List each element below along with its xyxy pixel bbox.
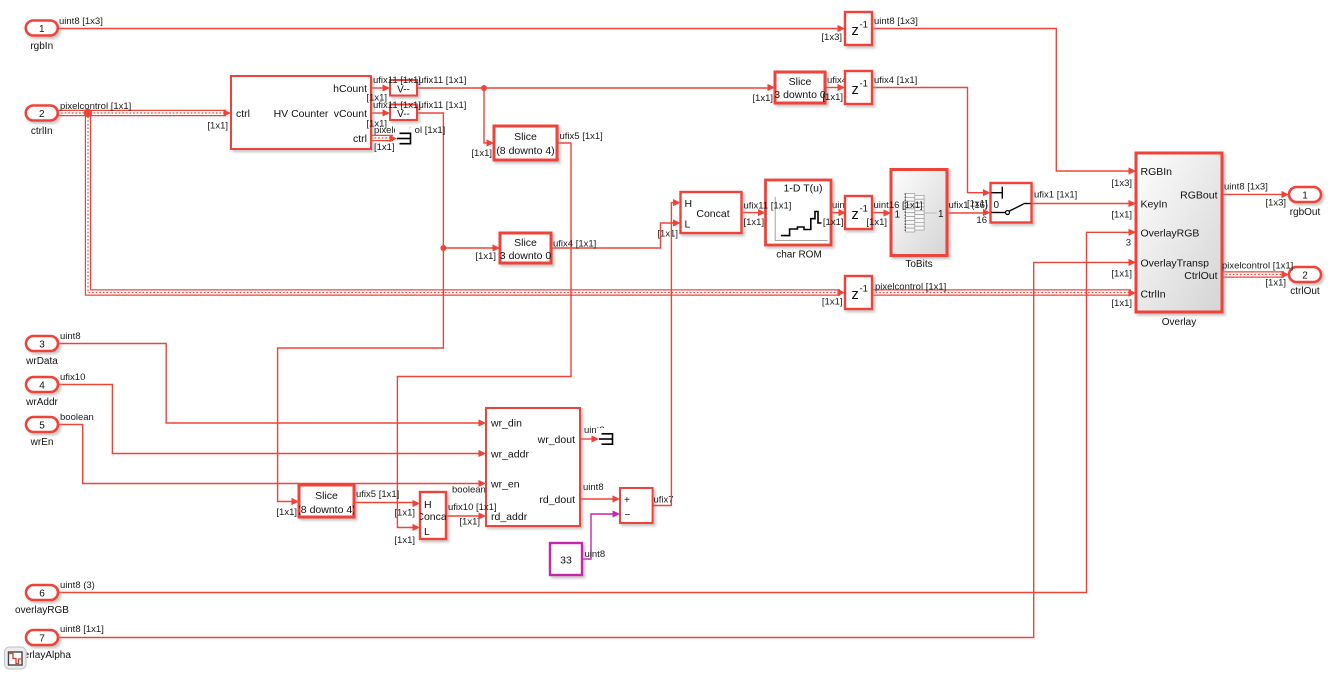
delay block delay2 (z^-1) bbox=[845, 71, 872, 104]
wire Concat1 to char ROM bbox=[742, 212, 761, 214]
block Index Vector switch bbox=[991, 183, 1032, 223]
arrowhead into Slice84 low bbox=[292, 498, 300, 505]
svg-text:CtrlIn: CtrlIn bbox=[1141, 289, 1166, 301]
svg-text:ufix7: ufix7 bbox=[654, 495, 674, 506]
svg-text:ctrlIn: ctrlIn bbox=[31, 126, 53, 137]
svg-text:[1x1]: [1x1] bbox=[744, 217, 765, 228]
arrowhead into V--h bbox=[383, 84, 391, 91]
svg-text:Concat: Concat bbox=[416, 511, 449, 523]
wire wrAddr to RAM wr_addr bbox=[58, 385, 482, 454]
svg-text:Slice: Slice bbox=[514, 237, 537, 249]
svg-text:3: 3 bbox=[39, 339, 45, 350]
wire hCount branch to Slice(8 downto 4) bbox=[484, 88, 489, 143]
svg-text:Concat: Concat bbox=[696, 208, 729, 220]
svg-text:ufix5 [1x1]: ufix5 [1x1] bbox=[560, 131, 603, 142]
arrowhead into rgbOut bbox=[1282, 191, 1290, 198]
wire Overlay CtrlOut to ctrlOut (pixelcontrol bus) bbox=[1222, 271, 1284, 277]
svg-text:wrData: wrData bbox=[25, 356, 58, 367]
wire overlayAlpha to Overlay bbox=[58, 262, 1132, 637]
block Slice (8 downto 4) lower bbox=[299, 485, 354, 517]
delay block delay1 (z^-1) bbox=[845, 12, 872, 45]
wire delay4 to Overlay CtrlIn (pixelcontrol bus) bbox=[872, 289, 1131, 295]
arrowhead into char ROM bbox=[758, 209, 766, 216]
svg-text:Slice: Slice bbox=[789, 76, 812, 88]
svg-text:z: z bbox=[852, 287, 859, 303]
wire ToBits to switch bbox=[947, 212, 986, 214]
arrowhead into delay4 bbox=[838, 289, 846, 296]
svg-text:[1x1]: [1x1] bbox=[394, 508, 415, 519]
arrowhead into RAM rd_addr bbox=[479, 512, 487, 519]
svg-text:[1x1]: [1x1] bbox=[752, 93, 773, 104]
wire vCount to V-- bbox=[371, 112, 385, 114]
svg-text:L: L bbox=[685, 219, 691, 231]
svg-text:ufix11 [1x1]: ufix11 [1x1] bbox=[419, 75, 467, 86]
svg-text:Slice: Slice bbox=[315, 490, 338, 502]
junction ctrlIn branch bbox=[84, 109, 92, 117]
arrowhead into Sum plus bbox=[613, 495, 621, 502]
svg-text:(8 downto 4): (8 downto 4) bbox=[496, 145, 554, 157]
wire vCount branch to Slice(3 downto 0) bbox=[443, 247, 495, 249]
wire Constant33 to Sum minus bbox=[582, 514, 615, 559]
svg-text:[1x1]: [1x1] bbox=[1111, 298, 1132, 309]
svg-text:[1x1]: [1x1] bbox=[866, 217, 887, 228]
svg-text:[1x1]: [1x1] bbox=[394, 535, 415, 546]
svg-text:uint16 [1x1]: uint16 [1x1] bbox=[874, 200, 923, 211]
svg-text:[1x1]: [1x1] bbox=[822, 92, 843, 103]
svg-text:uint8 [1x3]: uint8 [1x3] bbox=[1224, 182, 1268, 193]
svg-text:vCount: vCount bbox=[334, 108, 367, 120]
svg-text:[1x1]: [1x1] bbox=[657, 229, 678, 240]
svg-text:4: 4 bbox=[39, 380, 45, 391]
svg-text:5: 5 bbox=[39, 420, 45, 431]
wire RAM wr_dout to terminator bbox=[580, 438, 594, 440]
svg-text:H: H bbox=[424, 499, 432, 511]
arrowhead into Overlay OverlayTransp bbox=[1129, 259, 1137, 266]
svg-text:ctrlOut: ctrlOut bbox=[1290, 286, 1320, 297]
block Slice (8 downto 4) upper bbox=[494, 126, 557, 160]
svg-text:7: 7 bbox=[39, 633, 45, 644]
svg-text:[1x3]: [1x3] bbox=[821, 32, 842, 43]
svg-text:uint8 [1x3]: uint8 [1x3] bbox=[59, 16, 103, 27]
svg-text:Overlay: Overlay bbox=[1162, 317, 1196, 328]
wire wrData to RAM wr_din bbox=[58, 344, 482, 424]
svg-text:[1x3]: [1x3] bbox=[1111, 178, 1132, 189]
svg-text:rd_dout: rd_dout bbox=[539, 494, 575, 506]
svg-text:+: + bbox=[624, 495, 630, 506]
block RAM (dual port) bbox=[486, 408, 580, 526]
wire char ROM to delay3 bbox=[830, 212, 841, 214]
svg-text:HV Counter: HV Counter bbox=[274, 108, 329, 120]
wire Slice(3:0) top to delay2 bbox=[825, 87, 840, 89]
svg-text:uint8 (3): uint8 (3) bbox=[60, 580, 95, 591]
svg-text:ufix11 [1x1]: ufix11 [1x1] bbox=[744, 201, 792, 212]
arrowhead into delay3 bbox=[839, 209, 847, 216]
arrowhead into Concat2 H bbox=[413, 500, 421, 507]
svg-text:[1x1]: [1x1] bbox=[967, 199, 988, 210]
wire ctrlIn branch down+right to delay4 (pixelcontrol bus) bbox=[88, 113, 840, 293]
svg-text:V--: V-- bbox=[397, 85, 410, 96]
arrowhead into Overlay RGBIn bbox=[1129, 167, 1137, 174]
block Concat (upper) bbox=[681, 192, 742, 233]
arrowhead into Slice30 top bbox=[768, 84, 776, 91]
arrowhead into HV ctrl bbox=[224, 109, 232, 116]
svg-text:[1x1]: [1x1] bbox=[1265, 278, 1286, 289]
delay block delay4 (z^-1) bbox=[845, 276, 872, 309]
port inport 3 wrData bbox=[26, 336, 58, 351]
port inport 7 overlayAlpha bbox=[26, 630, 58, 645]
svg-text:[1x1]: [1x1] bbox=[1111, 210, 1132, 221]
port inport 5 wrEn bbox=[26, 417, 58, 432]
svg-text:-1: -1 bbox=[860, 284, 868, 295]
terminator terminator1 (ctrl) bbox=[395, 128, 415, 149]
svg-text:[1x1]: [1x1] bbox=[366, 119, 387, 130]
port inport 6 overlayRGB bbox=[26, 585, 58, 600]
arrowhead into terminator2 bbox=[592, 435, 600, 442]
port inport 1 rgbIn bbox=[26, 21, 58, 36]
wire ctrlIn to HV Counter (pixelcontrol bus) bbox=[58, 110, 227, 116]
logging badge (overlayAlpha) bbox=[5, 647, 27, 669]
svg-text:(8 downto 4): (8 downto 4) bbox=[297, 504, 355, 516]
arrowhead into Concat2 L bbox=[413, 524, 421, 531]
block V-- (hCount) bbox=[390, 80, 417, 96]
svg-text:boolean: boolean bbox=[452, 485, 486, 496]
svg-text:ufix11 [1x1]: ufix11 [1x1] bbox=[419, 100, 467, 111]
wire delay1 to Overlay RGBIn bbox=[872, 29, 1131, 172]
svg-text:(3 downto 0): (3 downto 0) bbox=[771, 89, 829, 101]
delay block delay3 (z^-1) bbox=[845, 196, 872, 229]
svg-text:1: 1 bbox=[1302, 190, 1308, 201]
svg-text:uint8: uint8 bbox=[585, 549, 606, 560]
arrowhead into Overlay CtrlIn bbox=[1129, 289, 1137, 296]
svg-text:hCount: hCount bbox=[333, 83, 367, 95]
svg-text:[1x1]: [1x1] bbox=[823, 217, 844, 228]
svg-text:ToBits: ToBits bbox=[905, 259, 932, 270]
svg-text:pixelcontrol [1x1]: pixelcontrol [1x1] bbox=[875, 282, 946, 293]
arrowhead into ctrlOut bbox=[1282, 271, 1290, 278]
svg-text:H: H bbox=[685, 198, 693, 210]
ToBits ladder icon bbox=[906, 194, 915, 198]
char ROM staircase icon bbox=[781, 212, 822, 236]
block Overlay (subsystem) bbox=[1136, 153, 1222, 312]
svg-text:-1: -1 bbox=[860, 20, 868, 31]
wire switch to Overlay KeyIn bbox=[1032, 203, 1132, 205]
block Concat (lower) bbox=[420, 492, 446, 539]
svg-text:ufix10 [1x1]: ufix10 [1x1] bbox=[448, 502, 497, 513]
svg-text:KeyIn: KeyIn bbox=[1141, 199, 1168, 211]
svg-text:wr_din: wr_din bbox=[490, 418, 522, 430]
svg-text:2: 2 bbox=[39, 109, 45, 120]
arrowhead into Concat1 L bbox=[673, 219, 681, 226]
svg-text:CtrlOut: CtrlOut bbox=[1184, 270, 1217, 282]
svg-text:1: 1 bbox=[895, 210, 901, 221]
block HV Counter bbox=[231, 76, 371, 149]
svg-text:[1x1]: [1x1] bbox=[822, 297, 843, 308]
svg-text:[1x1]: [1x1] bbox=[459, 517, 480, 528]
svg-text:RGBIn: RGBIn bbox=[1141, 166, 1173, 178]
svg-text:−: − bbox=[625, 510, 631, 521]
svg-text:uint8 [1x1]: uint8 [1x1] bbox=[60, 624, 104, 635]
arrowhead into Sum minus bbox=[613, 510, 621, 517]
wire vCount out routing bbox=[278, 113, 444, 502]
wire overlayRGB to Overlay bbox=[58, 232, 1132, 592]
wire Overlay RGBout to rgbOut bbox=[1222, 193, 1284, 195]
wire RAM rd_dout to Sum bbox=[580, 498, 615, 500]
arrowhead into RAM wr_addr bbox=[479, 450, 487, 457]
svg-text:6: 6 bbox=[39, 588, 45, 599]
svg-text:[1x1]: [1x1] bbox=[207, 121, 228, 132]
block char ROM (1-D lookup table) bbox=[766, 180, 832, 245]
wire V-- hCount out bbox=[417, 87, 770, 89]
svg-text:ctrl: ctrl bbox=[353, 133, 367, 145]
arrowhead into V--v bbox=[383, 109, 391, 116]
svg-text:ctrl: ctrl bbox=[236, 108, 250, 120]
svg-text:0: 0 bbox=[994, 200, 1000, 211]
arrowhead into delay2 bbox=[838, 84, 846, 91]
svg-text:ufix4 [1x1]: ufix4 [1x1] bbox=[553, 239, 596, 250]
svg-text:wrEn: wrEn bbox=[30, 437, 54, 448]
block Slice (3 downto 0) lower bbox=[500, 233, 551, 263]
arrowhead into switch ctrl bbox=[983, 189, 991, 196]
svg-text:1-D T(u): 1-D T(u) bbox=[784, 183, 823, 195]
port outport 2 ctrlOut bbox=[1289, 267, 1321, 282]
svg-text:wr_addr: wr_addr bbox=[490, 449, 529, 461]
svg-text:1: 1 bbox=[938, 209, 944, 220]
svg-text:OverlayRGB: OverlayRGB bbox=[1141, 228, 1200, 240]
wire hCount to V-- bbox=[371, 87, 385, 89]
svg-text:pixelcontrol [1x1]: pixelcontrol [1x1] bbox=[1222, 261, 1293, 272]
svg-text:ufix4 [1x1]: ufix4 [1x1] bbox=[874, 75, 917, 86]
svg-text:ufix5 [1x1]: ufix5 [1x1] bbox=[356, 489, 399, 500]
svg-text:wrAddr: wrAddr bbox=[25, 397, 58, 408]
svg-text:1: 1 bbox=[39, 24, 45, 35]
wire Sum out up to Concat1 H bbox=[653, 203, 676, 506]
svg-text:char ROM: char ROM bbox=[776, 250, 822, 261]
svg-text:[1x1]: [1x1] bbox=[1111, 269, 1132, 280]
svg-text:uint8 [1x3]: uint8 [1x3] bbox=[874, 16, 918, 27]
port inport 2 ctrlIn bbox=[26, 106, 58, 121]
svg-text:z: z bbox=[852, 82, 859, 98]
svg-text:overlayRGB: overlayRGB bbox=[15, 605, 69, 616]
svg-text:[1x1]: [1x1] bbox=[475, 251, 496, 262]
wire delay2 to switch ctrl bbox=[872, 88, 986, 193]
svg-text:[1x1]: [1x1] bbox=[374, 142, 395, 153]
svg-text:ufix11 [1x1]: ufix11 [1x1] bbox=[373, 100, 421, 111]
wire HV ctrl to terminator (pixelcontrol bus) bbox=[371, 135, 393, 141]
svg-text:OverlayTransp: OverlayTransp bbox=[1141, 258, 1210, 270]
port inport 4 wrAddr bbox=[26, 377, 58, 392]
arrowhead into ToBits bbox=[884, 209, 892, 216]
char ROM axes bbox=[775, 197, 828, 241]
svg-text:z: z bbox=[852, 23, 859, 39]
block Constant 33 bbox=[550, 543, 582, 575]
svg-text:(3 downto 0): (3 downto 0) bbox=[496, 250, 554, 262]
block ToBits (serializer) bbox=[891, 170, 947, 256]
svg-text:[1x1]: [1x1] bbox=[276, 507, 297, 518]
svg-text:2: 2 bbox=[1302, 270, 1308, 281]
arrowhead into delay1 bbox=[838, 25, 846, 32]
junction vCount branch bbox=[440, 245, 446, 251]
svg-text:rgbIn: rgbIn bbox=[30, 41, 53, 52]
svg-text:[1x3]: [1x3] bbox=[1265, 198, 1286, 209]
arrowhead into terminator1 bbox=[390, 135, 398, 142]
svg-text:wr_dout: wr_dout bbox=[537, 434, 575, 446]
svg-text:ufix11 [1x1]: ufix11 [1x1] bbox=[373, 75, 421, 86]
svg-text:L: L bbox=[424, 526, 430, 538]
svg-text:z: z bbox=[852, 207, 859, 223]
svg-text:-1: -1 bbox=[860, 79, 868, 90]
block V-- (vCount) bbox=[390, 105, 417, 121]
svg-text:33: 33 bbox=[560, 555, 572, 567]
arrowhead into Slice84 top bbox=[487, 139, 495, 146]
terminator terminator2 (wr_dout) bbox=[597, 428, 617, 449]
svg-text:uint8: uint8 bbox=[583, 482, 604, 493]
block Sum (+/-) bbox=[620, 488, 653, 523]
block Slice (3 downto 0) upper bbox=[775, 72, 825, 103]
junction hCount branch bbox=[481, 85, 487, 91]
arrowhead into Overlay OverlayRGB bbox=[1129, 229, 1137, 236]
svg-text:16: 16 bbox=[976, 215, 987, 226]
arrowhead into RAM wr_din bbox=[479, 419, 487, 426]
svg-text:[1x1]: [1x1] bbox=[471, 148, 492, 159]
wire Slice(8:4) top out down to Concat2 L bbox=[397, 143, 571, 528]
wire Slice(8:4) low to Concat2 H bbox=[355, 502, 416, 504]
arrowhead into Slice30 low bbox=[493, 244, 501, 251]
svg-text:pixelcontrol [1x1]: pixelcontrol [1x1] bbox=[60, 101, 131, 112]
svg-text:Slice: Slice bbox=[514, 131, 537, 143]
arrowhead into Concat1 H bbox=[673, 199, 681, 206]
wire delay3 to ToBits bbox=[872, 212, 886, 214]
svg-text:ufix10: ufix10 bbox=[60, 372, 85, 383]
svg-text:RGBout: RGBout bbox=[1180, 190, 1217, 202]
arrowhead into switch data bbox=[983, 209, 991, 216]
svg-text:boolean: boolean bbox=[60, 412, 94, 423]
wire wrEn to RAM wr_en bbox=[58, 425, 482, 484]
svg-text:rgbOut: rgbOut bbox=[1290, 207, 1321, 218]
svg-text:-1: -1 bbox=[860, 204, 868, 215]
svg-text:3: 3 bbox=[1126, 238, 1131, 249]
arrowhead into Overlay KeyIn bbox=[1129, 200, 1137, 207]
svg-text:uint8: uint8 bbox=[60, 331, 81, 342]
arrowhead into RAM wr_en bbox=[479, 480, 487, 487]
wire rgbIn to delay1 bbox=[58, 28, 841, 30]
svg-text:ufix1 [1x1]: ufix1 [1x1] bbox=[1034, 190, 1077, 201]
wire Slice(3:0) low to Concat1 L bbox=[551, 223, 676, 248]
port outport 1 rgbOut bbox=[1289, 187, 1321, 202]
wire Concat2 to RAM rd_addr bbox=[446, 515, 481, 517]
svg-text:wr_en: wr_en bbox=[490, 479, 520, 491]
